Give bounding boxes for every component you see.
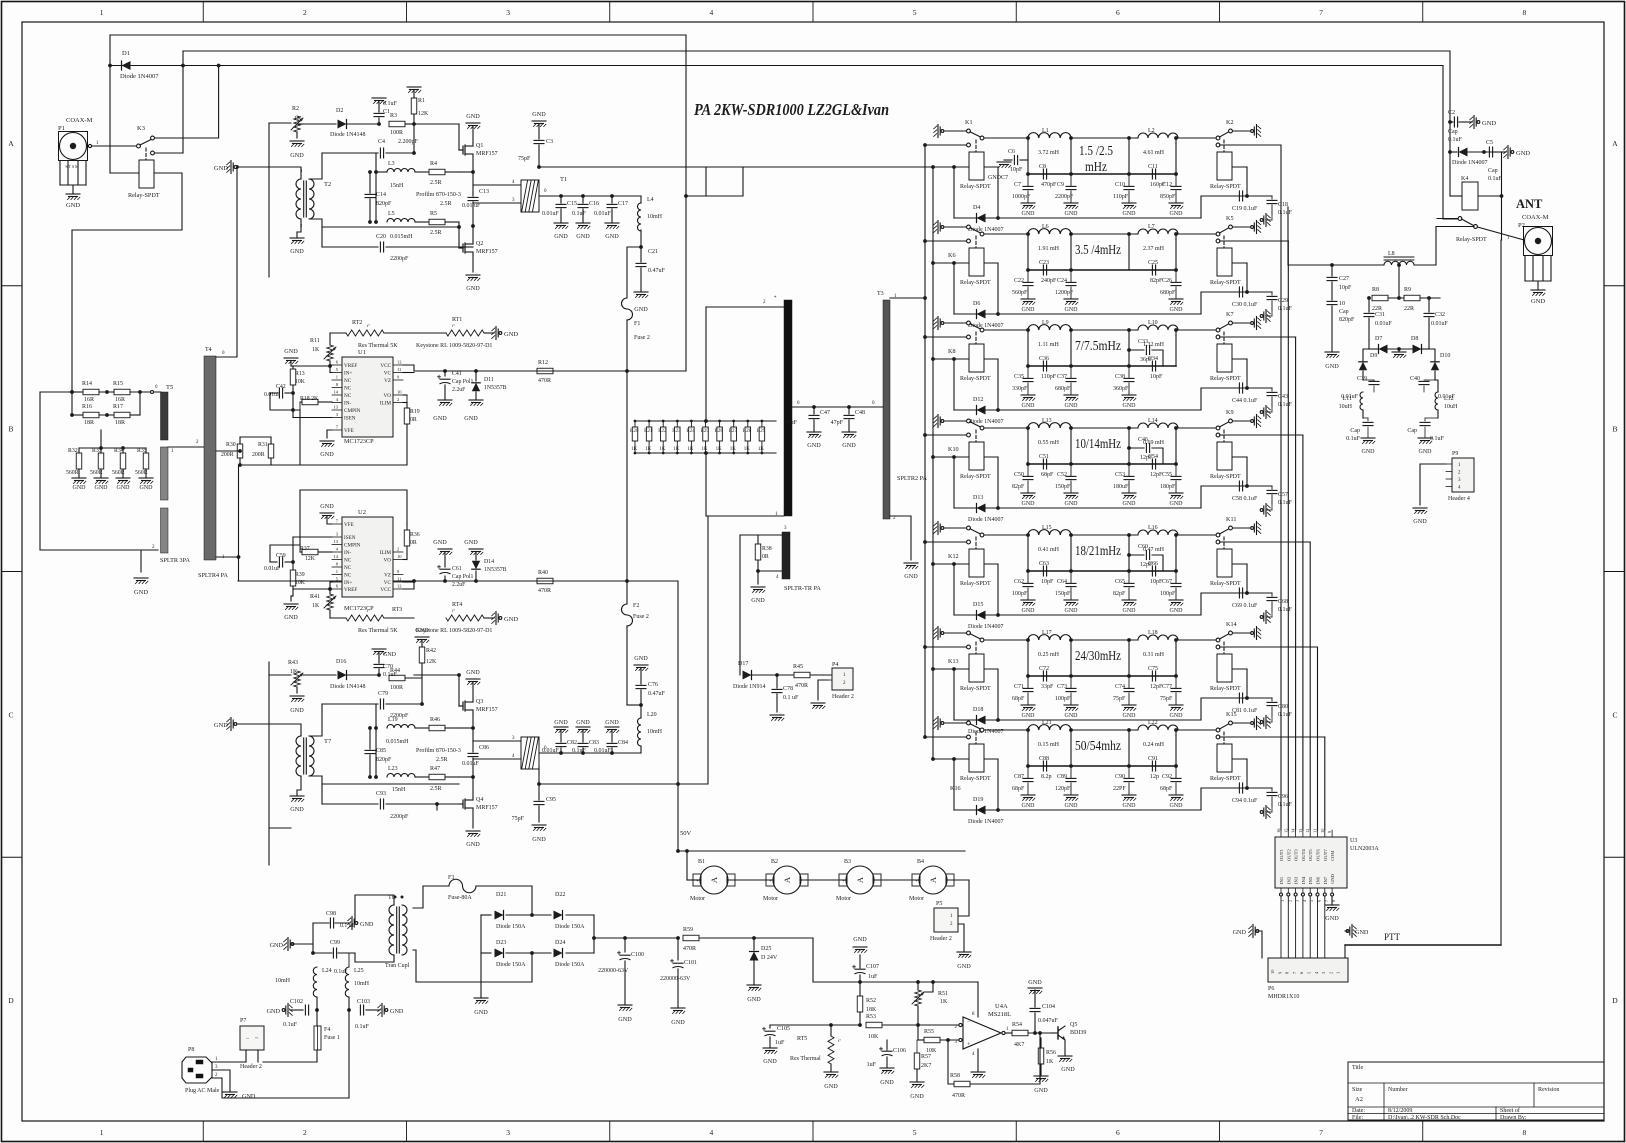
svg-text:t°: t° (452, 323, 455, 328)
svg-text:NC: NC (344, 565, 352, 571)
svg-text:L3: L3 (388, 161, 395, 167)
svg-text:16R: 16R (115, 397, 125, 403)
svg-text:0.01uF: 0.01uF (462, 761, 480, 767)
svg-text:P8: P8 (188, 1047, 194, 1053)
svg-text:16R: 16R (84, 397, 94, 403)
resistor R13 (290, 369, 296, 385)
svg-text:C96: C96 (1278, 794, 1288, 800)
svg-text:2200pF: 2200pF (390, 814, 409, 820)
svg-text:Fuse-80A: Fuse-80A (448, 895, 472, 901)
svg-text:t°: t° (367, 323, 370, 328)
svg-text:K4: K4 (1461, 176, 1468, 182)
svg-text:T4: T4 (205, 347, 212, 353)
svg-text:GND: GND (290, 707, 304, 714)
svg-text:Relay-SPDT: Relay-SPDT (1210, 184, 1241, 190)
capacitor C76 (640, 690, 642, 705)
svg-text:L8: L8 (1388, 251, 1395, 257)
svg-text:5: 5 (913, 8, 917, 17)
switch row6 left (967, 631, 971, 635)
wires to T6 (459, 727, 473, 729)
svg-text:B1: B1 (698, 859, 705, 865)
svg-text:C73: C73 (1057, 684, 1067, 690)
switch row1 left lower throw (967, 143, 971, 147)
svg-text:0.01uF: 0.01uF (1375, 321, 1393, 327)
svg-text:GND: GND (1482, 120, 1496, 127)
capacitor C54 12pF (1151, 459, 1153, 469)
row right lower throw (1216, 335, 1220, 339)
svg-text:0.47uF: 0.47uF (648, 691, 666, 697)
switch row7 left lower throw (967, 735, 971, 739)
svg-text:IN6: IN6 (1316, 876, 1321, 884)
svg-text:C16: C16 (589, 201, 599, 207)
capacitor C68 0.1uF (1247, 592, 1272, 594)
svg-text:75pF: 75pF (512, 816, 525, 822)
svg-text:mHz: mHz (1085, 159, 1107, 174)
svg-text:K5: K5 (1226, 215, 1234, 222)
capacitor C44 0.1uF (1238, 383, 1240, 393)
wire relay supply bus y167 (539, 166, 933, 168)
resistor R18 (302, 399, 318, 405)
svg-text:10pF: 10pF (1339, 285, 1352, 291)
ground Q3 (472, 682, 474, 699)
svg-text:C39: C39 (1357, 376, 1367, 382)
wire ISEN (292, 393, 294, 418)
svg-text:7: 7 (1319, 1128, 1323, 1137)
svg-text:C14: C14 (376, 192, 386, 198)
row right ground (1258, 718, 1261, 721)
svg-text:0.1uF: 0.1uF (1430, 436, 1445, 442)
capacitor C55 180pF (1175, 464, 1177, 476)
wire 50V drop to relay bus (686, 167, 743, 196)
relay K11 coil wires (1232, 563, 1247, 565)
svg-text:GND: GND (290, 152, 304, 159)
svg-text:IN1: IN1 (1279, 876, 1284, 884)
svg-text:L4: L4 (647, 197, 654, 203)
svg-text:1K: 1K (716, 447, 723, 452)
svg-text:2: 2 (397, 397, 399, 402)
svg-text:CMPIN: CMPIN (344, 543, 361, 549)
svg-text:R32: R32 (68, 448, 78, 454)
svg-text:820pF: 820pF (1339, 317, 1355, 323)
svg-text:GND: GND (466, 285, 480, 292)
svg-text:B: B (8, 425, 13, 434)
svg-text:GND: GND (1170, 211, 1184, 217)
inductor L21 (1028, 725, 1071, 730)
svg-text:R28: R28 (743, 429, 752, 434)
row top line mid (1071, 233, 1138, 235)
svg-text:C6: C6 (1008, 149, 1015, 155)
svg-text:GND: GND (1034, 1087, 1048, 1094)
svg-text:R1: R1 (418, 98, 425, 104)
wire R30 bottom to y581 (238, 465, 240, 581)
svg-text:T7: T7 (324, 738, 332, 745)
switch row5 right (1178, 534, 1216, 536)
svg-text:D8: D8 (1411, 336, 1418, 342)
svg-text:100R: 100R (390, 130, 403, 136)
resistor R35 (143, 453, 149, 469)
svg-text:Relay-SPDT: Relay-SPDT (1210, 686, 1241, 692)
resistor R53 (866, 1022, 882, 1028)
resistor R25 1K (705, 421, 707, 427)
svg-text:8: 8 (1523, 8, 1527, 17)
svg-text:5: 5 (913, 1128, 917, 1137)
svg-text:D24: D24 (555, 940, 565, 946)
svg-text:D7: D7 (1375, 336, 1382, 342)
svg-text:Relay-SPDT: Relay-SPDT (960, 376, 991, 382)
title block (1348, 1062, 1604, 1120)
row vertical stubs (1027, 330, 1029, 366)
svg-text:R24: R24 (686, 429, 695, 434)
svg-text:K8: K8 (948, 348, 956, 355)
svg-text:4: 4 (710, 1128, 714, 1137)
svg-text:B: B (1612, 425, 1617, 434)
capacitor C82 (560, 748, 562, 753)
relay K13 coil wires (933, 668, 969, 670)
svg-text:COAX-M: COAX-M (1522, 214, 1549, 221)
svg-text:0.015mH: 0.015mH (386, 739, 409, 745)
svg-text:0.1uF: 0.1uF (1278, 306, 1293, 312)
svg-text:F2: F2 (633, 603, 639, 609)
ground T2 left (227, 162, 230, 165)
svg-text:R57: R57 (921, 1054, 931, 1060)
wire filter out to L8 bus (1287, 207, 1289, 265)
wire 50V top bus (110, 35, 686, 371)
svg-text:0.1 uF: 0.1 uF (783, 695, 799, 701)
svg-text:82pF: 82pF (1113, 591, 1126, 597)
svg-text:OUT4: OUT4 (1301, 849, 1306, 861)
svg-text:K14: K14 (1226, 621, 1237, 628)
svg-text:A: A (8, 139, 14, 148)
svg-text:GND: GND (1123, 403, 1137, 409)
svg-text:CMPIN: CMPIN (344, 408, 361, 414)
svg-text:Relay-SPDT: Relay-SPDT (960, 686, 991, 692)
row right lower throw (1216, 143, 1220, 147)
svg-text:C3: C3 (546, 139, 553, 145)
capacitor C37 680pF (1070, 366, 1072, 378)
wire main y372 bus (414, 370, 686, 372)
svg-text:ISEN: ISEN (344, 535, 356, 541)
svg-text:Motor: Motor (690, 896, 705, 902)
ground left P6 (1249, 926, 1252, 929)
switch row4 left (967, 419, 971, 423)
capacitor C18 0.1uF (1247, 195, 1272, 197)
switch row2 left lower throw (967, 239, 971, 243)
svg-text:10: 10 (397, 390, 402, 395)
svg-text:C37: C37 (1057, 374, 1067, 380)
svg-text:82pF: 82pF (1012, 484, 1025, 490)
svg-text:GND: GND (117, 485, 131, 491)
svg-text:D22: D22 (555, 892, 565, 898)
svg-text:GND: GND (284, 614, 298, 621)
wire left loop (40, 392, 155, 550)
svg-text:GND: GND (807, 442, 821, 449)
svg-text:0.1uF: 0.1uF (1278, 712, 1293, 718)
svg-text:0.1uF: 0.1uF (1346, 436, 1361, 442)
svg-text:Size: Size (1352, 1087, 1363, 1093)
wire amp left loop (268, 123, 270, 277)
svg-text:470pF: 470pF (1041, 182, 1057, 188)
svg-text:A: A (782, 876, 792, 883)
svg-text:C106: C106 (893, 1048, 906, 1054)
svg-text:Diode 1N914: Diode 1N914 (733, 684, 766, 690)
svg-text:GND: GND (270, 942, 284, 949)
svg-text:15nH: 15nH (392, 787, 406, 793)
svg-text:R2: R2 (292, 106, 299, 112)
row bottom bus (954, 719, 1201, 721)
capacitor C91 12p (1151, 761, 1153, 771)
svg-text:GND: GND (904, 573, 918, 580)
svg-text:0.1uF: 0.1uF (383, 101, 398, 107)
mosfet Q1 (462, 146, 464, 154)
svg-text:Cap: Cap (1350, 428, 1360, 434)
svg-text:22PF: 22PF (1113, 786, 1126, 792)
capacitor C80 0.1uF (1247, 697, 1272, 699)
svg-text:0.01uF: 0.01uF (264, 566, 281, 572)
svg-text:GND: GND (1022, 608, 1036, 614)
header P6 MHDR1X10 (1268, 958, 1348, 982)
capacitor C81 0.1uF (1238, 693, 1240, 703)
svg-text:L1: L1 (1042, 128, 1049, 134)
capacitor C12 850pF (1175, 174, 1177, 186)
svg-text:1: 1 (336, 375, 338, 380)
svg-text:NC: NC (344, 393, 352, 399)
capacitor C22 560pF (1027, 270, 1029, 282)
wire T4 pin0 ground riser (216, 167, 237, 357)
svg-text:B4: B4 (917, 859, 924, 865)
svg-text:RT5: RT5 (797, 1036, 807, 1042)
svg-text:12K: 12K (418, 111, 429, 117)
svg-text:Diode 1N4148: Diode 1N4148 (330, 132, 366, 138)
svg-text:D13: D13 (973, 495, 983, 501)
svg-text:0.047uF: 0.047uF (1038, 1018, 1059, 1024)
row right ground (1258, 318, 1261, 321)
svg-text:10mH: 10mH (647, 729, 663, 735)
svg-text:GND: GND (1065, 211, 1079, 217)
svg-text:C5: C5 (1486, 140, 1493, 146)
svg-text:GND: GND (1022, 501, 1036, 507)
svg-text:A2: A2 (1355, 1096, 1363, 1103)
resistor R40 (537, 578, 553, 584)
svg-text:150pF: 150pF (1055, 591, 1071, 597)
svg-text:12pF: 12pF (1140, 455, 1153, 461)
row top line mid (1071, 329, 1138, 331)
svg-text:L11: L11 (1343, 396, 1352, 402)
capacitor C41 (444, 371, 446, 376)
capacitor C67 100pF (1175, 571, 1177, 583)
svg-text:MHDR1X10: MHDR1X10 (1268, 994, 1299, 1000)
switch K4 SPDT (1437, 218, 1458, 220)
svg-text:820pF: 820pF (376, 757, 392, 763)
resistor R29 1K (761, 421, 763, 427)
svg-text:GND: GND (1123, 803, 1137, 809)
svg-text:VCC: VCC (380, 587, 391, 593)
row vertical stubs (1027, 730, 1029, 766)
capacitor C86 (472, 713, 474, 752)
svg-text:C19 0.1uF: C19 0.1uF (1232, 206, 1258, 212)
ground U1 pin7 (327, 430, 332, 438)
svg-text:Relay-SPDT: Relay-SPDT (960, 776, 991, 782)
capacitor C75 12pF (1151, 671, 1153, 681)
row mid bus (1028, 675, 1176, 677)
capacitor C105 (769, 1025, 771, 1028)
svg-text:10: 10 (397, 554, 402, 559)
svg-text:GND: GND (390, 1008, 404, 1015)
svg-text:R9: R9 (1404, 287, 1411, 293)
svg-text:2.200pF: 2.200pF (398, 139, 419, 145)
switch row7 right (1178, 729, 1216, 731)
svg-text:GND: GND (320, 451, 334, 458)
ground P8 (229, 1086, 231, 1092)
relay K2 coil wires (1232, 166, 1247, 168)
relay K8 coil wires (933, 358, 969, 360)
svg-text:Keystone RL 1009-5820-97-D1: Keystone RL 1009-5820-97-D1 (416, 343, 492, 349)
svg-text:18R: 18R (84, 420, 94, 426)
svg-text:560R: 560R (66, 470, 79, 476)
svg-text:0.1uF: 0.1uF (1278, 402, 1293, 408)
wire K3 lower throw (155, 152, 184, 154)
svg-text:GND: GND (1325, 915, 1339, 922)
svg-text:GND: GND (1022, 803, 1036, 809)
switch row3 left lower throw (967, 335, 971, 339)
svg-text:L18: L18 (1148, 630, 1158, 636)
fuse F4 (314, 1026, 321, 1050)
svg-text:68pF: 68pF (1041, 472, 1054, 478)
svg-text:MC1723CP: MC1723CP (344, 438, 374, 445)
switch row3 right (1178, 329, 1216, 331)
svg-text:GND: GND (1355, 929, 1369, 936)
svg-text:U2: U2 (358, 509, 366, 516)
svg-text:GND: GND (910, 1093, 924, 1100)
svg-text:MRF157: MRF157 (476, 151, 498, 157)
svg-text:C29: C29 (1278, 298, 1288, 304)
svg-text:1K: 1K (645, 447, 652, 452)
ground right stub (1353, 926, 1356, 929)
svg-text:GND: GND (576, 233, 590, 240)
svg-text:10mH: 10mH (275, 978, 291, 984)
filter row 24/30mHz left ground (934, 628, 937, 631)
svg-text:C8: C8 (1039, 164, 1046, 170)
svg-text:Diode 1N4007: Diode 1N4007 (968, 323, 1004, 329)
svg-text:15nH: 15nH (390, 183, 404, 189)
svg-text:Diode 150A: Diode 150A (555, 924, 585, 930)
svg-text:C59: C59 (276, 553, 286, 559)
svg-text:Fuse 2: Fuse 2 (634, 335, 650, 341)
svg-text:IN2: IN2 (1286, 876, 1291, 884)
svg-text:2: 2 (397, 547, 399, 552)
resistor R42 (419, 647, 425, 663)
svg-text:SPLTR4 PA: SPLTR4 PA (198, 572, 229, 579)
row top line mid (1071, 729, 1138, 731)
svg-text:D10: D10 (1440, 353, 1450, 359)
svg-text:1K: 1K (312, 603, 320, 609)
svg-text:1uF: 1uF (868, 974, 878, 980)
svg-text:C80: C80 (1278, 704, 1288, 710)
svg-text:1: 1 (100, 1128, 104, 1137)
svg-text:K13: K13 (948, 658, 959, 665)
svg-text:Fuse 1: Fuse 1 (324, 1035, 340, 1041)
svg-text:IN-: IN- (344, 550, 351, 556)
capacitor C66 10pF (1151, 566, 1153, 576)
svg-text:D 24V: D 24V (761, 955, 778, 961)
relay K15 right (1223, 732, 1225, 743)
svg-text:Diode 1N4007: Diode 1N4007 (968, 517, 1004, 523)
svg-text:GND: GND (1170, 307, 1184, 313)
svg-text:L9: L9 (1042, 320, 1049, 326)
svg-text:D: D (8, 996, 14, 1005)
svg-text:C71: C71 (1014, 684, 1024, 690)
svg-text:C33: C33 (1138, 339, 1148, 345)
svg-text:GND: GND (73, 485, 87, 491)
svg-text:2: 2 (303, 8, 307, 17)
svg-text:11: 11 (1313, 829, 1318, 833)
svg-text:14: 14 (334, 554, 339, 559)
capacitor C90 22PF (1128, 766, 1130, 778)
capacitor C64 150pF (1070, 571, 1072, 583)
svg-text:C48: C48 (855, 410, 865, 416)
svg-text:24/30mHz: 24/30mHz (1075, 648, 1121, 663)
svg-text:1K: 1K (730, 447, 737, 452)
svg-text:C41: C41 (452, 371, 462, 377)
svg-text:C89: C89 (1057, 774, 1067, 780)
svg-text:Diode 1N4007: Diode 1N4007 (1452, 160, 1488, 166)
svg-text:C95: C95 (546, 797, 556, 803)
svg-text:P7: P7 (240, 1018, 246, 1024)
row top line mid (1071, 639, 1138, 641)
svg-text:560pF: 560pF (1012, 290, 1028, 296)
svg-text:100pF: 100pF (1012, 591, 1028, 597)
op-amp output (1005, 1032, 1012, 1034)
svg-text:0.1uF: 0.1uF (1278, 802, 1293, 808)
svg-text:3.72 mH: 3.72 mH (1038, 150, 1060, 156)
svg-text:C69 0.1uF: C69 0.1uF (1232, 603, 1258, 609)
resistor R22 1K (662, 421, 664, 427)
svg-text:GND: GND (214, 722, 228, 729)
resistor R47 (429, 774, 445, 780)
row mid bus (1028, 570, 1176, 572)
svg-text:33pF: 33pF (1041, 684, 1054, 690)
inductor L12 (1435, 392, 1438, 410)
svg-text:C47: C47 (820, 410, 830, 416)
svg-text:150pF: 150pF (1055, 484, 1071, 490)
svg-text:GND: GND (1061, 1066, 1075, 1073)
svg-text:F1: F1 (634, 321, 640, 327)
row mid bus (1028, 765, 1176, 767)
svg-text:GND: GND (751, 597, 765, 604)
svg-text:OUT1: OUT1 (1279, 849, 1284, 861)
capacitor C83 (582, 748, 584, 753)
svg-text:R30: R30 (226, 442, 236, 448)
row right ground (1258, 222, 1261, 225)
svg-text:Diode 1N4148: Diode 1N4148 (330, 684, 366, 690)
svg-text:220000-63V: 220000-63V (660, 976, 691, 982)
svg-text:6: 6 (1116, 8, 1120, 17)
wire P5 pin2 gnd (958, 924, 964, 952)
svg-text:C107: C107 (866, 964, 879, 970)
ground U2 pin7 (327, 516, 332, 524)
svg-text:Relay-SPDT: Relay-SPDT (1210, 776, 1241, 782)
capacitor C17 (611, 196, 613, 203)
svg-text:Keystone RL 1009-5820-97-D1: Keystone RL 1009-5820-97-D1 (416, 628, 492, 634)
svg-text:0.01uF: 0.01uF (1431, 321, 1449, 327)
svg-text:t°: t° (838, 1038, 841, 1043)
svg-text:Plug AC Male: Plug AC Male (185, 1088, 220, 1094)
svg-text:C24: C24 (1057, 278, 1067, 284)
svg-text:F3: F3 (448, 875, 454, 881)
wire L3 row (375, 153, 377, 222)
svg-text:3: 3 (506, 8, 510, 17)
svg-text:Q5: Q5 (1070, 1022, 1077, 1028)
inductor L10 (1138, 325, 1178, 330)
